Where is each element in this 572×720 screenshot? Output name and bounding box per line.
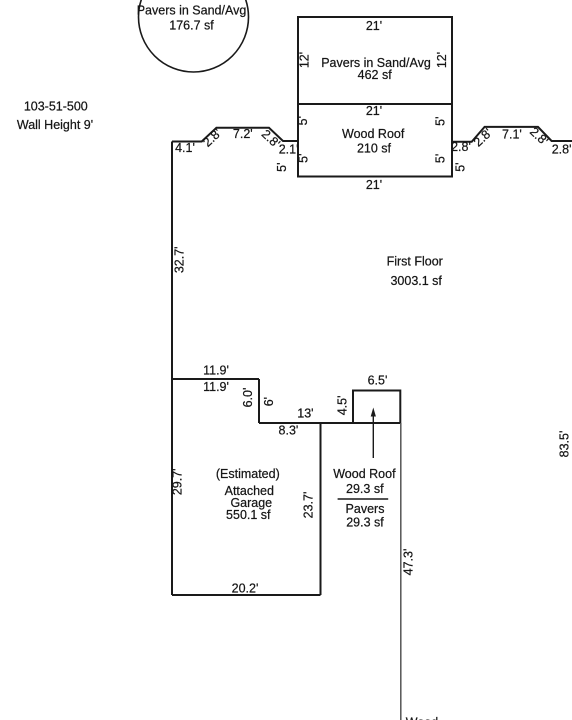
- garage bottom wall 20.2': [172, 594, 321, 596]
- small wood roof / pavers box: [353, 391, 400, 424]
- wall 6' vertical jog: [258, 379, 260, 423]
- svg-text:12': 12': [435, 52, 449, 68]
- svg-text:176.7 sf: 176.7 sf: [169, 19, 214, 33]
- svg-text:2.8': 2.8': [200, 126, 224, 150]
- svg-text:6': 6': [262, 397, 276, 406]
- svg-text:5': 5': [275, 163, 289, 172]
- svg-text:(Estimated): (Estimated): [216, 467, 280, 481]
- svg-text:4.1': 4.1': [175, 141, 195, 155]
- svg-text:6.0': 6.0': [241, 388, 255, 408]
- svg-text:12': 12': [297, 52, 311, 68]
- garage right wall 23.7': [320, 423, 322, 595]
- svg-text:7.2': 7.2': [233, 127, 253, 141]
- svg-text:21': 21': [366, 178, 382, 192]
- svg-text:5': 5': [297, 154, 311, 163]
- svg-text:5': 5': [453, 162, 467, 171]
- svg-text:2.8': 2.8': [552, 143, 572, 157]
- svg-text:6.5': 6.5': [368, 374, 388, 388]
- fraction separator line: [338, 498, 389, 500]
- svg-text:13': 13': [297, 407, 313, 421]
- svg-text:21': 21': [366, 104, 382, 118]
- svg-text:8.3': 8.3': [279, 423, 299, 437]
- svg-text:3003.1 sf: 3003.1 sf: [390, 274, 442, 288]
- svg-text:Wood Roof: Wood Roof: [342, 127, 405, 141]
- svg-text:5': 5': [296, 116, 310, 125]
- svg-text:2.8': 2.8': [471, 126, 495, 150]
- svg-text:210 sf: 210 sf: [357, 142, 392, 156]
- right wall 47.3' going to bottom edge: [400, 423, 402, 720]
- first floor top wall right run: 2.8' 2.8' 7.1' 2.8' 2.8': [452, 127, 572, 142]
- svg-text:2.1': 2.1': [279, 143, 299, 157]
- svg-text:Pavers: Pavers: [346, 502, 385, 516]
- wall 11.9' between first floor and garage: [172, 378, 259, 380]
- circle pavers-in-sand area outline: [139, 0, 249, 72]
- svg-text:29.3 sf: 29.3 sf: [346, 515, 384, 529]
- svg-text:11.9': 11.9': [203, 364, 229, 378]
- svg-text:21': 21': [366, 19, 382, 33]
- svg-text:Pavers in Sand/Avg: Pavers in Sand/Avg: [137, 4, 247, 18]
- svg-text:103-51-500: 103-51-500: [24, 99, 88, 113]
- arrow pointing into small box: [372, 414, 374, 458]
- svg-text:29.7': 29.7': [171, 468, 185, 495]
- svg-text:Wall Height 9': Wall Height 9': [17, 118, 93, 132]
- svg-text:32.7': 32.7': [173, 246, 187, 273]
- svg-text:5': 5': [433, 117, 447, 126]
- svg-text:29.3 sf: 29.3 sf: [346, 482, 384, 496]
- wall 13' / 8.3' horizontal: [259, 422, 400, 424]
- first floor / garage left wall 32.7'+29.7': [171, 142, 173, 596]
- first floor top wall left run: 4.1' 2.8' 7.2' 2.8' 2.1': [172, 128, 298, 142]
- svg-text:2.8': 2.8': [527, 125, 551, 149]
- svg-text:First Floor: First Floor: [387, 254, 443, 268]
- svg-text:Wood Roof: Wood Roof: [333, 467, 396, 481]
- svg-text:47.3': 47.3': [401, 549, 415, 576]
- svg-text:4.5': 4.5': [336, 396, 350, 416]
- svg-text:550.1 sf: 550.1 sf: [226, 508, 271, 522]
- divider wall between pavers 462sf and wood roof 210sf: [298, 103, 452, 105]
- svg-text:Wood: Wood: [406, 716, 438, 720]
- svg-text:2.8': 2.8': [451, 140, 471, 154]
- svg-text:462 sf: 462 sf: [358, 68, 393, 82]
- svg-text:7.1': 7.1': [502, 128, 522, 142]
- svg-text:83.5': 83.5': [557, 431, 571, 458]
- svg-text:23.7': 23.7': [301, 492, 315, 519]
- pavers 462sf + wood roof 210sf box outline: [298, 17, 452, 177]
- svg-text:5': 5': [433, 154, 447, 163]
- svg-text:11.9': 11.9': [203, 380, 229, 394]
- svg-text:20.2': 20.2': [232, 581, 259, 595]
